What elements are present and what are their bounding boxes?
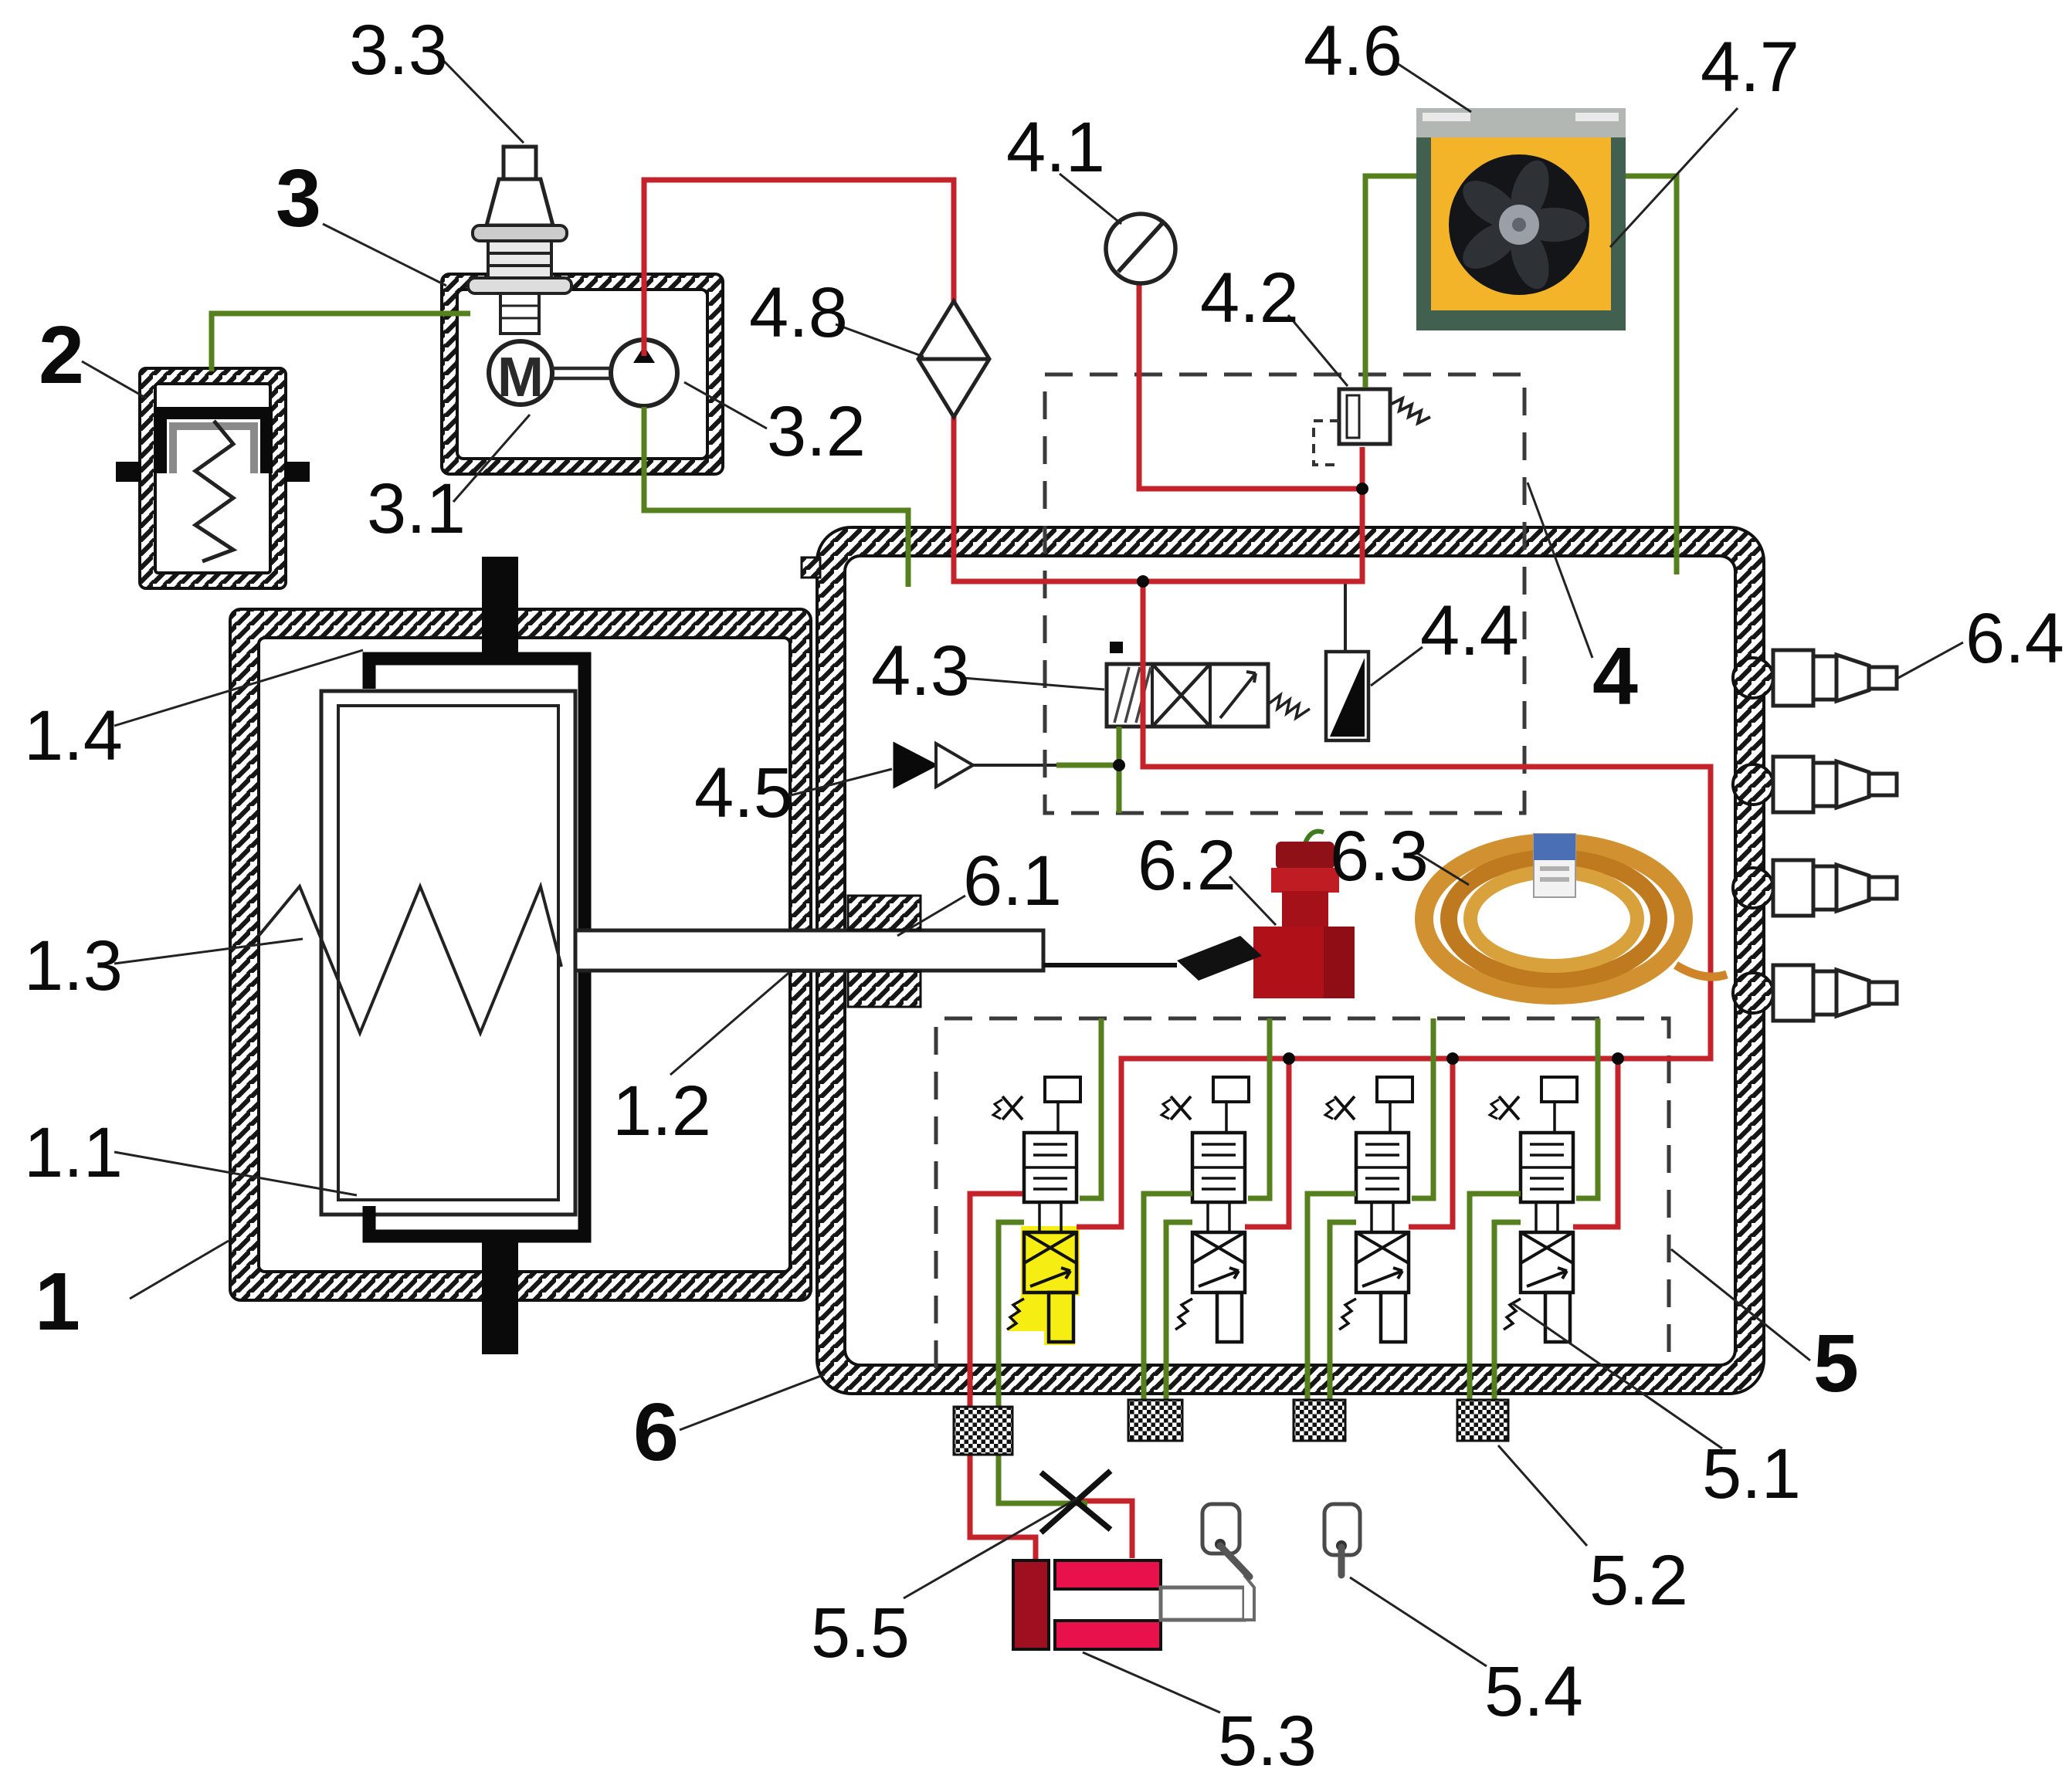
svg-text:4.2: 4.2 [1200, 259, 1299, 337]
red drop to valve 3 [1409, 1059, 1453, 1227]
spring inside box 2 [195, 421, 233, 561]
proportional valve unit 2 symbol [1161, 1077, 1249, 1342]
leader line 5 [1671, 1249, 1810, 1360]
dashed box 4 (cooling/filtering sub-circuit) [1045, 374, 1524, 813]
svg-text:6.3: 6.3 [1330, 817, 1429, 896]
valve 4.2 spring [1390, 398, 1430, 423]
red line: pressure gauge 4.1 branch [1139, 283, 1359, 489]
rod gland flange lower [848, 971, 921, 1007]
pressure gauge 4.1 [1106, 214, 1175, 283]
green hose bulkhead to crossing 5.5 [999, 1455, 1087, 1503]
svg-text:6.1: 6.1 [963, 842, 1062, 920]
svg-text:1.4: 1.4 [24, 696, 123, 775]
red hose crossing 5.5 to cylinder 5.3 rod side [1081, 1501, 1132, 1558]
leader line 3 [323, 224, 446, 286]
solenoid valve 4.3 body [1107, 664, 1268, 727]
green line: cooler 4.6 return into box 6 [1626, 176, 1677, 574]
spring 1.3 inside tank [259, 886, 561, 1033]
dashed box 5 (proportional valve group) [936, 1018, 1669, 1368]
box 6 (test bench housing) wall [817, 527, 1764, 1394]
load cylinder 5.3 photo [1013, 1560, 1254, 1649]
cable to sensor (from piston rod) [1043, 963, 1177, 967]
wire 4.5 to green node [973, 764, 1056, 767]
valve 4.2 pilot dashed bracket [1314, 421, 1339, 465]
green drop to valve 2 [1248, 1018, 1270, 1198]
svg-text:4.4: 4.4 [1420, 591, 1519, 670]
svg-text:5.3: 5.3 [1218, 1702, 1317, 1772]
svg-text:3.1: 3.1 [367, 469, 466, 548]
leader line 1.2 [670, 970, 792, 1075]
leader line 2 [82, 361, 147, 398]
filter box 2 wall [140, 368, 286, 588]
leader line 4.1 [1060, 174, 1121, 224]
leader line 5.2 [1498, 1445, 1587, 1546]
lower guide rod through tank bottom wall [482, 1231, 518, 1354]
leader line 6 [680, 1374, 825, 1430]
svg-text:4.7: 4.7 [1701, 28, 1799, 107]
svg-text:2: 2 [39, 310, 84, 401]
bulkhead connector block under valve 3 [1294, 1400, 1345, 1441]
green lines valve 4 ports to bulkhead [1470, 1194, 1521, 1439]
filter 4.8 diamond [918, 301, 989, 417]
green line: pump suction from tank 3 [644, 407, 908, 587]
leader line 4.4 [1371, 647, 1423, 686]
leader line 5.5 [904, 1498, 1078, 1598]
junction node green check valve line [1113, 759, 1125, 771]
svg-text:5: 5 [1813, 1318, 1859, 1409]
green line: cooler 4.6 to pilot valve 4.2 [1365, 176, 1416, 388]
valve 4.3 spring [1268, 695, 1310, 718]
breather 3.3 threaded neck [500, 293, 539, 334]
leader line 3.3 [437, 54, 524, 143]
junction node manifold to valve 4.3 [1137, 575, 1149, 588]
oil cooler 4.6 photo [1416, 108, 1626, 330]
motor-pump shaft [552, 368, 611, 378]
svg-text:6.4: 6.4 [1965, 599, 2064, 678]
junction node gauge/pilot line [1356, 483, 1368, 495]
bulkhead connector block under valve 4 [1457, 1400, 1508, 1441]
proportional valve unit 3 symbol [1325, 1077, 1412, 1342]
leader line 3.2 [684, 382, 767, 429]
svg-text:5.5: 5.5 [811, 1594, 910, 1672]
svg-text:6: 6 [633, 1387, 679, 1478]
breather 3.3 ribbed body [488, 241, 551, 278]
check valve 4.5 [894, 744, 936, 787]
pump unit box 3 wall [442, 274, 723, 474]
svg-text:1.3: 1.3 [24, 927, 123, 1005]
electric motor 3.1 (M circle) [489, 341, 552, 405]
leader line 1 [130, 1241, 229, 1299]
svg-text:5.2: 5.2 [1589, 1541, 1688, 1620]
leader line 4.2 [1288, 315, 1348, 386]
svg-text:1.2: 1.2 [612, 1072, 711, 1150]
leader line 4 [1528, 483, 1592, 658]
leader line 6.2 [1229, 876, 1276, 925]
tank box 1 (hydraulic cylinder housing) wall [230, 609, 811, 1300]
svg-text:5.1: 5.1 [1702, 1435, 1801, 1513]
svg-text:6.2: 6.2 [1138, 826, 1236, 905]
quick coupler 6.4 no.2 [1733, 757, 1897, 812]
green drop to valve 1 [1080, 1018, 1101, 1198]
leader line 6.1 [897, 896, 965, 936]
leader line 5.1 [1512, 1303, 1722, 1448]
red drop to valve 4 [1573, 1059, 1618, 1227]
box 2 side pins [116, 462, 141, 482]
svg-text:4: 4 [1592, 631, 1638, 722]
svg-text:5.4: 5.4 [1484, 1652, 1583, 1731]
breather 3.3 lower flange [468, 278, 571, 293]
red line: pump 3.2 to filter 4.8 into manifold, to pilot valve 4.2 [644, 180, 1362, 581]
red line valve 1 work port A to bulkhead [970, 1194, 1022, 1455]
junction node bus valve 2 [1283, 1052, 1295, 1065]
svg-text:4.3: 4.3 [871, 632, 970, 710]
svg-text:4.6: 4.6 [1304, 12, 1402, 90]
leader line 4.7 [1610, 108, 1738, 247]
leader line 3.1 [453, 415, 530, 502]
leader line 1.3 [114, 939, 303, 964]
leader line 4.5 [785, 769, 892, 797]
pilot valve 4.2 body [1339, 389, 1390, 444]
svg-text:4.8: 4.8 [749, 273, 848, 352]
red line: manifold branch through valve 4.3 to right header and valve bus [1077, 581, 1711, 1227]
upper guide rod through tank top wall [482, 557, 518, 665]
filter element inside box 2 (inverted cup) [161, 413, 266, 473]
leader line 6.3 [1417, 853, 1469, 885]
bulkhead connector block under valve 2 [1128, 1400, 1182, 1441]
leader line 4.6 [1395, 62, 1471, 112]
box 6 left wall step flange [802, 557, 820, 578]
green line: filter 2 to pump box 3 [212, 313, 470, 371]
sensor cable coil 6.3 photo [1424, 834, 1727, 995]
breather 3.3 taper [487, 179, 553, 225]
proportional valve 5.1 unit 1 yellow highlight [1021, 1226, 1080, 1296]
quick coupler 6.4 no.3 [1733, 860, 1897, 916]
svg-text:4.1: 4.1 [1006, 108, 1105, 187]
svg-text:3.2: 3.2 [767, 392, 866, 471]
leader line 4.8 [836, 324, 924, 357]
temperature sensor 4.4 body [1326, 652, 1368, 740]
bulkhead connector block 5.2 under valve 1 [954, 1407, 1012, 1455]
limit switch 5.4 left [1202, 1504, 1250, 1577]
green line: check valve 4.5 node to valve 4.3 tank port [1056, 727, 1119, 813]
green line valve 1 work port B to bulkhead [999, 1222, 1024, 1455]
leader line 5.3 [1083, 1652, 1220, 1713]
green drop to valve 3 [1412, 1018, 1433, 1198]
proportional valve unit 1 symbol [993, 1077, 1080, 1342]
svg-text:1: 1 [35, 1256, 80, 1347]
leader line 4.3 [963, 678, 1104, 689]
svg-text:M: M [497, 347, 544, 408]
proportional valve unit 4 symbol [1490, 1077, 1577, 1342]
wire sensor 4.4 to red manifold line [1344, 581, 1347, 652]
junction node bus valve 4 [1612, 1052, 1624, 1065]
breather 3.3 upper flange [473, 225, 567, 241]
red hose bulkhead to cylinder 5.3 [970, 1455, 1036, 1562]
piston rod 1.2 [575, 930, 1043, 971]
red drop to valve 2 [1245, 1059, 1289, 1227]
green lines valve 2 ports to bulkhead [1144, 1194, 1192, 1439]
leader line 1.4 [114, 650, 363, 726]
quick coupler 6.4 no.1 [1733, 650, 1897, 706]
green drop to valve 4 [1576, 1018, 1598, 1198]
displacement sensor 6.2 photo [1253, 832, 1355, 998]
pump outlet arrow [633, 346, 655, 363]
leader line 1.1 [114, 1152, 357, 1195]
svg-text:3: 3 [276, 153, 321, 244]
svg-text:1.1: 1.1 [24, 1113, 123, 1192]
quick coupler 6.4 no.4 [1733, 965, 1897, 1021]
hose crossing symbol 5.5 (crossed lines) [1041, 1471, 1111, 1533]
junction node bus valve 3 [1446, 1052, 1459, 1065]
valve 4.3 pilot cap [1110, 642, 1123, 653]
moving frame 1.4 (thick C-yoke) [369, 659, 585, 1236]
leader line 6.4 [1898, 642, 1963, 678]
cylinder liner 1.1 (double-wall rectangle) [321, 691, 575, 1215]
svg-text:3.3: 3.3 [349, 11, 448, 90]
green lines valve 3 ports to bulkhead [1307, 1194, 1356, 1439]
leader line 5.4 [1350, 1577, 1487, 1666]
limit switch 5.4 right [1324, 1504, 1360, 1575]
svg-text:4.5: 4.5 [694, 754, 793, 832]
rod gland flange upper [848, 896, 921, 930]
breather 3.3 top square [504, 147, 536, 179]
pump 3.2 circle [611, 340, 677, 406]
